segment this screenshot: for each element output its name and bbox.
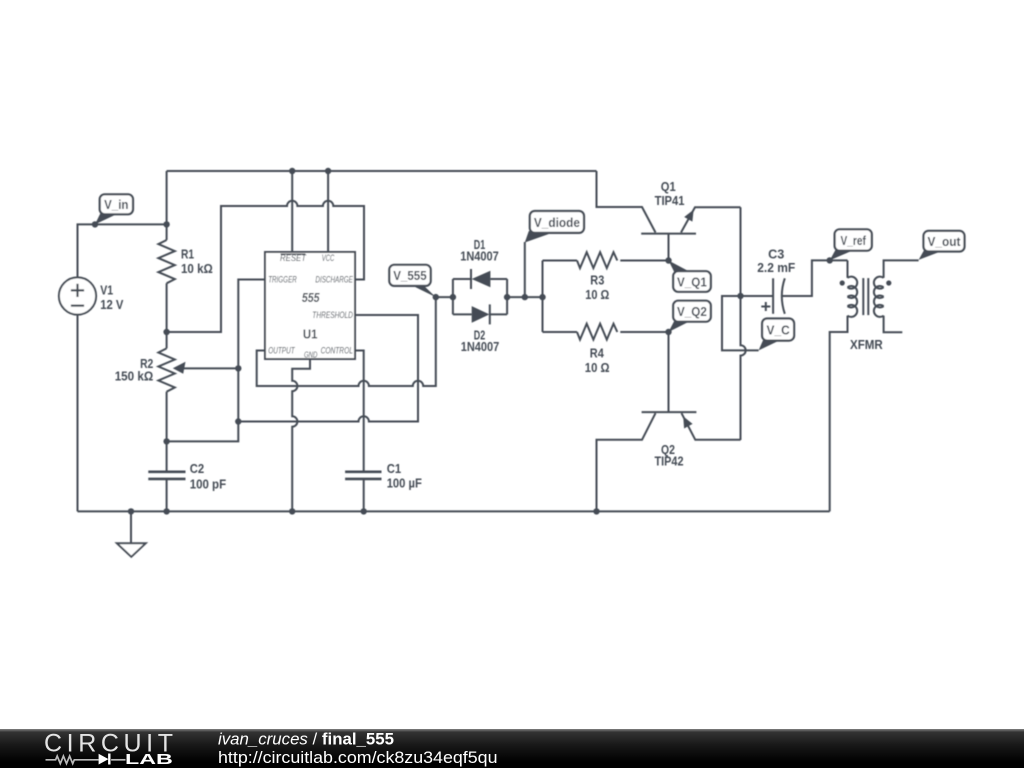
svg-text:V_ref: V_ref — [841, 233, 867, 248]
svg-text:10 kΩ: 10 kΩ — [181, 262, 213, 276]
svg-text:R3: R3 — [590, 274, 604, 288]
svg-text:R1: R1 — [181, 247, 194, 261]
svg-text:LAB: LAB — [125, 752, 173, 768]
svg-text:TIP42: TIP42 — [655, 455, 684, 469]
svg-text:C1: C1 — [387, 462, 401, 476]
svg-text:TRIGGER: TRIGGER — [268, 275, 297, 285]
svg-text:V_C: V_C — [767, 322, 790, 337]
svg-text:V_out: V_out — [928, 234, 962, 249]
svg-text:10 Ω: 10 Ω — [585, 288, 609, 302]
svg-text:OUTPUT: OUTPUT — [268, 345, 296, 355]
svg-text:V_diode: V_diode — [534, 215, 580, 230]
svg-text:GND: GND — [304, 350, 318, 360]
svg-text:2.2 mF: 2.2 mF — [757, 261, 795, 275]
svg-text:V1: V1 — [100, 284, 113, 298]
svg-text:VCC: VCC — [322, 253, 335, 263]
svg-text:V_in: V_in — [104, 197, 129, 212]
svg-text:V_Q1: V_Q1 — [677, 274, 707, 289]
svg-text:C3: C3 — [768, 248, 784, 262]
svg-text:XFMR: XFMR — [850, 338, 883, 352]
svg-text:http://circuitlab.com/ck8zu34e: http://circuitlab.com/ck8zu34eqf5qu — [218, 748, 498, 767]
svg-text:150 kΩ: 150 kΩ — [115, 369, 154, 383]
svg-text:1N4007: 1N4007 — [461, 340, 500, 354]
svg-text:12 V: 12 V — [100, 298, 124, 312]
svg-text:R4: R4 — [590, 346, 604, 360]
svg-text:Q1: Q1 — [661, 180, 676, 194]
svg-text:V_555: V_555 — [393, 268, 427, 283]
svg-text:1N4007: 1N4007 — [460, 249, 499, 263]
svg-text:THRESHOLD: THRESHOLD — [312, 310, 353, 320]
svg-text:TIP41: TIP41 — [655, 194, 685, 208]
svg-text:V_Q2: V_Q2 — [677, 304, 707, 319]
svg-text:C2: C2 — [190, 462, 204, 476]
svg-text:10 Ω: 10 Ω — [585, 361, 610, 375]
svg-text:100 µF: 100 µF — [387, 476, 423, 490]
svg-text:555: 555 — [302, 290, 320, 305]
svg-text:U1: U1 — [303, 326, 318, 341]
svg-text:CONTROL: CONTROL — [321, 345, 353, 355]
svg-text:ivan_cruces / final_555: ivan_cruces / final_555 — [218, 729, 394, 748]
svg-text:100 pF: 100 pF — [190, 477, 227, 491]
svg-text:DISCHARGE: DISCHARGE — [315, 275, 353, 285]
